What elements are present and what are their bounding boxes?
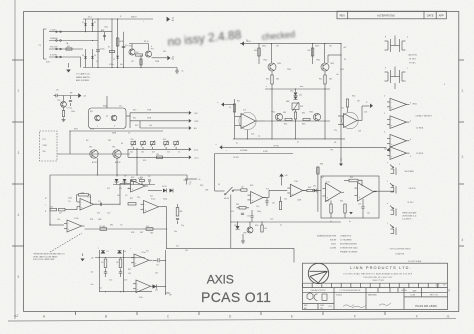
- svg-text:IC7a: IC7a: [326, 182, 330, 184]
- series resistor R33: [307, 189, 313, 191]
- svg-text:R50: R50: [352, 96, 355, 98]
- component band wire: [113, 184, 155, 186]
- component band resistor R11: [131, 179, 136, 181]
- svg-text:D1: D1: [82, 22, 84, 24]
- trimmer RV5: [174, 142, 179, 145]
- base resistor R3: [136, 54, 143, 56]
- svg-text:CALDRON: CALDRON: [408, 54, 417, 57]
- svg-text:R14: R14: [140, 177, 143, 179]
- wire switch drop: [230, 195, 232, 249]
- wire 0V rail psu: [83, 67, 177, 69]
- svg-text:U7/A/7/2/L: U7/A/7/2/L: [396, 253, 405, 256]
- rail drop 3: [312, 44, 314, 64]
- signature squiggle 2: [352, 305, 366, 308]
- svg-text:K1: K1: [218, 184, 220, 186]
- arrow mute right: [387, 148, 390, 152]
- op-amp IC1b: [131, 180, 146, 192]
- op-amp IC5a: [134, 254, 149, 267]
- svg-text:IC5b: IC5b: [139, 297, 143, 299]
- svg-text:SW1: SW1: [74, 129, 78, 131]
- trimmer RV2: [141, 142, 146, 145]
- misc res R36: [261, 225, 263, 232]
- svg-text:TR 7B N: TR 7B N: [409, 59, 417, 61]
- wire to mute line: [328, 54, 341, 56]
- vert resistor R35: [279, 202, 281, 210]
- svg-text:47k: 47k: [231, 211, 234, 213]
- opto LED 3: [395, 209, 397, 217]
- note arrow dashed: [50, 233, 82, 252]
- svg-text:12v: 12v: [119, 106, 122, 108]
- svg-text:R36: R36: [255, 225, 258, 227]
- mains input bracket: [44, 29, 47, 59]
- svg-text:22k: 22k: [272, 203, 275, 205]
- trimmer RV3: [150, 142, 155, 145]
- preamp out arrow: [357, 120, 362, 122]
- svg-text:0R1: 0R1: [276, 79, 279, 81]
- svg-text:R5 1k: R5 1k: [144, 41, 149, 43]
- svg-text:3: 3: [462, 155, 464, 159]
- svg-text:RV4: RV4: [163, 139, 166, 141]
- svg-text:TR1: TR1: [129, 46, 132, 48]
- emitter resistor R43: [324, 71, 326, 75]
- svg-text:TO CASE LUG,: TO CASE LUG,: [76, 73, 90, 76]
- arrow ON: [189, 111, 192, 115]
- wire -15-1 line: [128, 148, 189, 150]
- svg-text:1k5: 1k5: [128, 273, 131, 275]
- svg-text:TR11: TR11: [316, 60, 320, 62]
- opto LED 4: [395, 228, 397, 236]
- svg-text:3: 3: [384, 96, 385, 98]
- svg-text:OPTOCOUPLER ORD'S: OPTOCOUPLER ORD'S: [390, 249, 412, 251]
- wire IC3a-IC3b: [263, 197, 269, 199]
- box lower resistor R54: [344, 204, 346, 213]
- rail drop 1: [258, 44, 260, 64]
- arrow rail left: [241, 41, 244, 46]
- relay transistor Q4: [111, 115, 117, 121]
- wire 0V bottom rail stage: [233, 138, 345, 140]
- input resistor R47: [234, 99, 236, 139]
- svg-text:C26: C26: [364, 112, 367, 114]
- signature squiggle 3: [379, 303, 391, 306]
- svg-text:2k2: 2k2: [185, 250, 188, 252]
- svg-text:68k: 68k: [110, 225, 113, 227]
- rectifier diode D4: [92, 49, 94, 68]
- arrow +15-1: [189, 155, 192, 159]
- svg-text:4700u: 4700u: [100, 49, 105, 51]
- svg-text:3: 3: [18, 151, 20, 155]
- lower part cap C22: [250, 215, 253, 217]
- svg-text:0v: 0v: [100, 288, 102, 290]
- arrow +10 output: [167, 17, 170, 22]
- svg-text:L 240V: L 240V: [50, 29, 56, 31]
- svg-text:D15: D15: [234, 225, 237, 227]
- svg-text:TELEX: 777813: TELEX: 777813: [372, 280, 383, 282]
- svg-text:x: x: [216, 144, 217, 146]
- post stage box: [321, 176, 379, 218]
- wire lower bus: [265, 120, 330, 122]
- svg-text:0v: 0v: [280, 225, 282, 227]
- svg-text:0v2: 0v2: [176, 246, 179, 248]
- feedback resistor R14: [79, 194, 89, 196]
- svg-text:C11: C11: [98, 201, 101, 203]
- fuse FS1: [66, 48, 72, 50]
- svg-text:C4: C4: [189, 184, 191, 186]
- junction dots: [97, 18, 98, 19]
- svg-text:47p: 47p: [181, 225, 184, 227]
- svg-text:R27: R27: [128, 269, 131, 271]
- trimmer RV4: [164, 142, 169, 145]
- svg-text:0v: 0v: [297, 142, 299, 144]
- svg-text:2: 2: [18, 89, 20, 93]
- svg-text:C1 MB A: C1 MB A: [416, 127, 424, 130]
- svg-text:D4: D4: [94, 55, 96, 57]
- svg-text:D11: D11: [155, 290, 158, 292]
- svg-text:SCREEN: SCREEN: [240, 150, 248, 152]
- svg-text:D7: D7: [116, 176, 118, 178]
- svg-text:100n: 100n: [104, 27, 108, 29]
- title block outline: [303, 263, 448, 309]
- svg-text:100p: 100p: [257, 211, 261, 213]
- svg-text:a: a: [98, 248, 99, 250]
- svg-text:R52: R52: [350, 177, 353, 179]
- wire OFF line: [130, 120, 189, 122]
- svg-text:C8: C8: [56, 90, 58, 92]
- svg-text:s: s: [407, 68, 408, 70]
- svg-text:6: 6: [410, 121, 411, 123]
- svg-text:MODIFIED&ISSUED: MODIFIED&ISSUED: [340, 244, 358, 246]
- svg-text:0v: 0v: [349, 221, 351, 223]
- svg-text:0R22: 0R22: [315, 46, 319, 48]
- wire A1 line: [140, 127, 189, 129]
- svg-text:R42: R42: [266, 79, 269, 81]
- svg-text:1n0: 1n0: [247, 216, 250, 218]
- svg-text:R54: R54: [340, 201, 343, 203]
- wire IC3b out: [303, 190, 307, 192]
- svg-text:MUTE: MUTE: [224, 198, 230, 200]
- svg-text:2k2: 2k2: [128, 188, 131, 190]
- svg-text:2: 2: [462, 89, 464, 93]
- op-amp IC2b: [67, 220, 82, 232]
- svg-text:FLOORS ROAD WATERFOOT EAGLESHA: FLOORS ROAD WATERFOOT EAGLESHAM GLASGOW …: [344, 272, 413, 275]
- input resistor R15: [50, 208, 57, 211]
- svg-text:IC7b: IC7b: [359, 180, 363, 182]
- svg-text:R41: R41: [308, 50, 311, 52]
- svg-text:R10: R10: [133, 110, 136, 112]
- gain resistor R21: [146, 228, 153, 231]
- svg-text:47u: 47u: [125, 45, 128, 47]
- svg-text:1k0: 1k0: [264, 228, 267, 230]
- svg-text:47k: 47k: [107, 188, 110, 190]
- svg-text:6 RESISTORS V.ADJ: 6 RESISTORS V.ADJ: [340, 247, 358, 250]
- svg-text:2: 2: [384, 149, 385, 151]
- svg-text:SK1: SK1: [163, 51, 166, 53]
- svg-text:IN4007: IN4007: [131, 17, 137, 19]
- svg-text:22k: 22k: [137, 197, 140, 199]
- svg-text:0R1: 0R1: [329, 79, 332, 81]
- rail diode D9: [101, 250, 106, 253]
- output transistor TR10: [268, 63, 276, 71]
- svg-text:1k: 1k: [178, 152, 180, 154]
- wire regulator output: [152, 57, 168, 59]
- svg-text:a: a: [387, 181, 388, 183]
- output stub OP: [165, 292, 170, 294]
- svg-text:FOR GOOD CMRR PERF: FOR GOOD CMRR PERF: [33, 259, 55, 261]
- svg-text:R47: R47: [237, 101, 240, 103]
- wire IC2a out: [162, 207, 167, 249]
- revision table: [337, 11, 446, 19]
- svg-text:10u: 10u: [367, 213, 370, 215]
- component band resistor R12: [140, 179, 145, 181]
- svg-text:RL1: RL1: [90, 111, 93, 113]
- svg-text:F1: F1: [246, 40, 248, 42]
- svg-text:a: a: [387, 223, 388, 225]
- stage drops: [247, 130, 249, 139]
- svg-text:Z1: Z1: [113, 59, 115, 61]
- svg-text:5W: 5W: [329, 46, 332, 48]
- svg-text:C12: C12: [107, 213, 110, 215]
- svg-text:NI 7B C: NI 7B C: [408, 202, 415, 204]
- paper bottom edge: [8, 319, 456, 321]
- pass transistor TR1: [129, 49, 135, 55]
- shield box top: [215, 154, 293, 192]
- earth triangle: [66, 70, 71, 73]
- svg-text:1k: 1k: [229, 107, 231, 109]
- svg-text:OP LEV: OP LEV: [99, 226, 106, 228]
- svg-text:10k: 10k: [50, 206, 53, 208]
- wire bottom rail blc: [99, 291, 152, 293]
- feedback cap C21: [241, 212, 244, 214]
- svg-text:1M0: 1M0: [98, 219, 101, 221]
- svg-text:TR2: TR2: [151, 49, 154, 51]
- svg-text:+: +: [143, 21, 144, 23]
- svg-text:63v: 63v: [120, 64, 123, 66]
- issue row cells: [302, 283, 304, 287]
- header dividers: [377, 288, 379, 293]
- svg-text:220p: 220p: [163, 199, 167, 201]
- svg-text:R46: R46: [302, 124, 305, 126]
- svg-text:D12: D12: [155, 273, 158, 275]
- svg-text:R44: R44: [302, 113, 305, 115]
- wire vas out: [256, 120, 266, 122]
- svg-text:D9: D9: [107, 251, 109, 253]
- ref arrow down: [80, 259, 84, 262]
- wire left feedback drop: [49, 175, 51, 225]
- arrow -15-1: [189, 147, 192, 151]
- svg-text:C25: C25: [358, 204, 361, 206]
- svg-text:1%: 1%: [125, 195, 128, 197]
- svg-text:IC3b: IC3b: [294, 181, 298, 183]
- svg-text:0v: 0v: [199, 179, 201, 181]
- rail diode D10: [117, 250, 122, 253]
- wire relay supply: [106, 96, 108, 108]
- svg-text:10u: 10u: [91, 284, 94, 286]
- title block divider v2: [365, 288, 367, 310]
- sense resistor R34: [317, 167, 319, 174]
- svg-text:DO NOT SCALE: DO NOT SCALE: [408, 260, 422, 263]
- svg-text:4k7: 4k7: [152, 152, 155, 154]
- arrow mute left: [219, 145, 222, 149]
- divider resistor R25: [104, 259, 107, 268]
- wire left vertical: [98, 250, 100, 292]
- svg-text:C1: C1: [96, 61, 98, 63]
- svg-text:R13: R13: [131, 177, 134, 179]
- wire bus 131: [70, 130, 163, 132]
- svg-text:4k7: 4k7: [150, 196, 153, 198]
- svg-text:4: 4: [462, 238, 464, 242]
- svg-text:47k: 47k: [334, 130, 337, 132]
- svg-text:DRN: DRN: [304, 305, 307, 307]
- svg-text:7/52: 7/52: [328, 306, 332, 308]
- svg-text:TR5: TR5: [89, 147, 92, 149]
- svg-text:RV1: RV1: [131, 139, 134, 141]
- svg-text:R24: R24: [143, 160, 146, 162]
- gain resistor R20: [100, 228, 107, 231]
- svg-text:PL2: PL2: [43, 139, 46, 141]
- svg-text:C15: C15: [109, 280, 112, 282]
- svg-text:a: a: [387, 203, 388, 205]
- svg-text:FS1: FS1: [67, 46, 70, 48]
- svg-text:0v: 0v: [236, 143, 238, 145]
- svg-text:4700u: 4700u: [109, 64, 114, 66]
- svg-text:+40: +40: [343, 47, 346, 49]
- ground symbol psu 0V: [176, 68, 178, 71]
- svg-text:HELP MAN: HELP MAN: [405, 170, 415, 173]
- rectifier diode D2: [92, 19, 94, 32]
- svg-text:10k: 10k: [284, 199, 287, 201]
- svg-text:C9 10u: C9 10u: [67, 108, 73, 110]
- driver resistor R45: [285, 118, 292, 120]
- rectifier diode D3: [85, 49, 87, 68]
- zener resistor R1: [104, 32, 106, 41]
- svg-text:R1: R1: [108, 47, 110, 49]
- trimmer RV1: [131, 142, 136, 145]
- wire mute long 147: [222, 146, 386, 148]
- svg-text:0v: 0v: [330, 221, 332, 223]
- svg-text:100k: 100k: [68, 198, 72, 200]
- svg-text:TR8: TR8: [243, 233, 246, 235]
- wire 0V rail mid: [50, 175, 187, 181]
- box lower resistor R53: [330, 204, 332, 213]
- svg-text:R45: R45: [284, 124, 287, 126]
- svg-text:OP GN: OP GN: [233, 157, 239, 159]
- svg-text:R11: R11: [133, 118, 136, 120]
- svg-text:220R: 220R: [155, 61, 160, 63]
- svg-text:D20: D20: [290, 91, 293, 93]
- svg-text:2k2: 2k2: [136, 52, 139, 54]
- svg-text:2: 2: [384, 113, 385, 115]
- arrow OFF: [189, 119, 192, 123]
- svg-text:C2 MB B: C2 MB B: [416, 153, 424, 155]
- legend transistor pair 2: [390, 70, 392, 83]
- svg-text:C: C: [167, 314, 170, 318]
- issue row line top: [303, 282, 448, 284]
- box link resistor R52: [349, 179, 358, 182]
- relay box RLA: [89, 108, 127, 129]
- box output wire: [374, 190, 395, 192]
- aux transistor TR3: [63, 96, 65, 102]
- divider resistor R26: [119, 259, 122, 268]
- svg-text:MATERIAL: MATERIAL: [368, 293, 377, 296]
- svg-text:CA 7B N: CA 7B N: [409, 187, 417, 190]
- svg-text:b: b: [151, 46, 152, 48]
- svg-text:D: D: [229, 314, 232, 318]
- faint pencil smudge: [167, 27, 296, 49]
- vas opamp IC4: [239, 112, 256, 129]
- preamp op-amp IC6: [342, 112, 358, 128]
- svg-text:D14: D14: [313, 185, 316, 187]
- svg-text:1k0: 1k0: [241, 187, 244, 189]
- rail drop 4: [324, 44, 326, 63]
- down marker: [339, 164, 343, 167]
- svg-text:3055: 3055: [340, 69, 344, 71]
- svg-text:L: L: [45, 205, 46, 207]
- feedback resistor R31: [239, 207, 246, 209]
- svg-text:10k: 10k: [141, 152, 144, 154]
- svg-text:a CLASS 7b: a CLASS 7b: [402, 218, 411, 221]
- svg-text:SW: SW: [43, 151, 46, 153]
- opto LED 1: [395, 168, 397, 176]
- driver transistor TR2: [145, 51, 151, 57]
- svg-text:+40: +40: [91, 258, 94, 260]
- filter cap C16: [119, 271, 122, 273]
- emitter resistor R4: [140, 55, 142, 68]
- svg-text:IC5: IC5: [146, 251, 149, 253]
- svg-text:R29: R29: [200, 185, 203, 187]
- output diode D11: [153, 284, 157, 288]
- svg-text:5W: 5W: [276, 46, 279, 48]
- signature squiggle 1: [343, 305, 354, 307]
- svg-text:BR1: BR1: [101, 30, 104, 32]
- svg-text:1k0: 1k0: [149, 125, 152, 127]
- wire emitter bus: [265, 88, 330, 90]
- svg-text:10k: 10k: [117, 195, 120, 197]
- svg-text:b: b: [114, 126, 115, 128]
- resistor R18: [128, 203, 136, 205]
- svg-text:C16: C16: [124, 280, 127, 282]
- bias transistor Q6: [113, 150, 121, 158]
- svg-text:4k7: 4k7: [59, 213, 62, 215]
- svg-text:R34: R34: [320, 164, 323, 166]
- svg-text:TR 7B C: TR 7B C: [409, 63, 417, 65]
- legend op-amp 4: [390, 147, 407, 160]
- svg-text:ALTERATIONS: ALTERATIONS: [377, 13, 395, 17]
- wire long bottom 248: [167, 247, 295, 249]
- svg-text:9/11/88: 9/11/88: [330, 240, 336, 242]
- lower diode D15: [236, 226, 240, 229]
- bias trimmer RV8: [292, 103, 299, 110]
- svg-text:TR13: TR13: [309, 112, 313, 114]
- mains input line N: [49, 40, 98, 42]
- wire input to IC1a: [65, 209, 77, 211]
- svg-text:CB AND FDD: CB AND FDD: [340, 235, 352, 238]
- wire 0v stub: [185, 178, 197, 180]
- svg-text:USUALLY MB DELP: USUALLY MB DELP: [416, 115, 433, 118]
- svg-text:470R: 470R: [147, 110, 152, 112]
- op-amp IC1a: [80, 199, 94, 211]
- mains input line L: [49, 31, 112, 33]
- svg-text:R30: R30: [250, 185, 253, 187]
- rectifier diode D1: [85, 19, 87, 32]
- op-amp IC5b: [136, 280, 151, 293]
- component band diode D8: [123, 179, 127, 182]
- emitter resistor R42: [271, 71, 273, 75]
- svg-text:21/4/88: 21/4/88: [330, 248, 336, 250]
- zener diode Z1: [116, 56, 118, 58]
- svg-text:C14: C14: [57, 219, 60, 221]
- svg-text:6: 6: [410, 103, 411, 105]
- projection cell hexagon: [307, 293, 313, 300]
- svg-text:RV6: RV6: [131, 232, 134, 234]
